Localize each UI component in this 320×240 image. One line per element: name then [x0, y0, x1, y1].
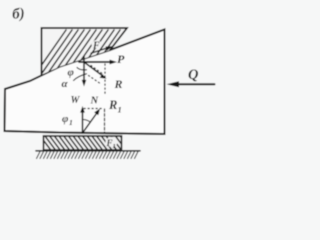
svg-text:F: F: [106, 138, 113, 148]
angle phi1 arc: [83, 120, 91, 123]
svg-text:W: W: [71, 95, 81, 106]
svg-text:α: α: [62, 78, 69, 90]
svg-text:φ: φ: [68, 67, 75, 79]
ground hatching: [37, 152, 139, 159]
svg-text:1: 1: [118, 105, 122, 115]
force P arrow: [79, 61, 110, 63]
svg-text:б): б): [12, 6, 26, 23]
svg-text:N: N: [90, 96, 99, 107]
force Q arrow: [174, 83, 215, 85]
svg-text:R: R: [114, 77, 123, 91]
angle phi arc (top): [77, 68, 87, 70]
dotted construction diagonal 1: [91, 66, 104, 75]
dotted construction diagonal 2: [89, 76, 100, 84]
paper background: [0, 0, 228, 161]
fixed upper block (hatched): [42, 28, 128, 75]
svg-text:R: R: [108, 98, 117, 112]
svg-text:P: P: [117, 52, 125, 66]
force W arrow (vertical down at top contact): [83, 57, 85, 82]
ground line: [36, 150, 140, 152]
dotted construction horizontal (lower): [84, 108, 103, 110]
upper block border: [42, 28, 128, 75]
svg-text:Q: Q: [188, 67, 199, 83]
dotted construction vertical (top parallelogram): [104, 64, 106, 96]
force R arrow: [84, 62, 102, 75]
wedge body outline: [5, 30, 165, 135]
label F: [92, 40, 102, 49]
svg-text:φ: φ: [62, 113, 69, 125]
lower support base (hatched): [44, 136, 122, 150]
force R1 arrow: [83, 114, 97, 134]
force F arrow (along incline): [91, 48, 107, 53]
lower normal N1 arrow (vertical up): [82, 111, 84, 133]
dashed construction vertical (lower): [104, 109, 106, 133]
label F1 gap in base hatching: [106, 137, 118, 147]
angle alpha arc: [74, 74, 87, 81]
svg-text:F: F: [92, 41, 100, 52]
svg-text:1: 1: [69, 118, 73, 127]
svg-text:1: 1: [113, 143, 116, 150]
